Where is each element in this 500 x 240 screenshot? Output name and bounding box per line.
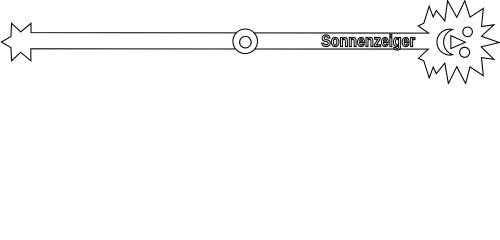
crescent moon inside sun — [437, 29, 453, 55]
upper small circle inside sun — [463, 27, 473, 37]
triangle pointer inside sun — [451, 36, 465, 49]
lower small circle inside sun — [460, 47, 470, 57]
hub hole — [240, 36, 252, 48]
svg-text:Sonnenzeiger: Sonnenzeiger — [321, 32, 416, 50]
hand outline: tail star + shaft + sunburst tip (one closed contour) — [1, 1, 499, 84]
hub boss circle — [233, 29, 258, 54]
